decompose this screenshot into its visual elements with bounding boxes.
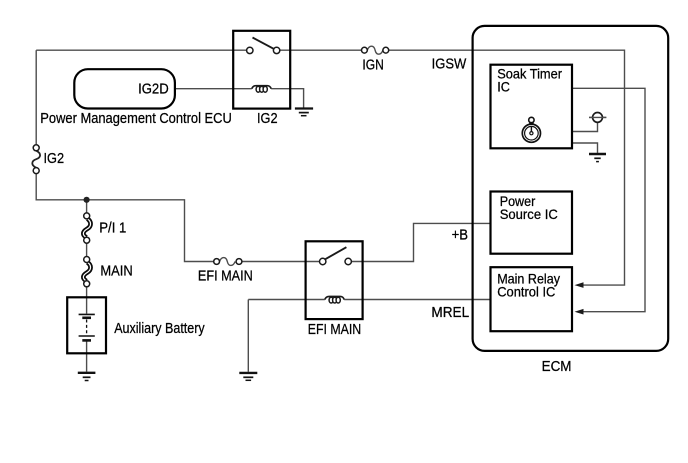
svg-text:EFI MAIN: EFI MAIN bbox=[308, 322, 361, 338]
svg-text:MREL: MREL bbox=[431, 305, 469, 321]
svg-text:IG2: IG2 bbox=[257, 111, 278, 127]
svg-text:Auxiliary Battery: Auxiliary Battery bbox=[114, 321, 205, 337]
svg-text:MAIN: MAIN bbox=[100, 264, 132, 280]
svg-text:Source IC: Source IC bbox=[500, 207, 558, 222]
svg-text:+B: +B bbox=[452, 228, 468, 244]
svg-text:IGSW: IGSW bbox=[432, 56, 467, 72]
svg-text:IG2D: IG2D bbox=[138, 81, 169, 97]
svg-text:ECM: ECM bbox=[542, 359, 572, 375]
svg-text:Power Management Control ECU: Power Management Control ECU bbox=[40, 111, 232, 127]
svg-text:IG2: IG2 bbox=[44, 151, 65, 167]
svg-text:EFI MAIN: EFI MAIN bbox=[198, 268, 253, 284]
svg-text:P/I 1: P/I 1 bbox=[99, 221, 126, 237]
svg-text:IGN: IGN bbox=[362, 57, 383, 73]
svg-text:Control IC: Control IC bbox=[497, 284, 555, 299]
svg-text:IC: IC bbox=[497, 80, 510, 95]
